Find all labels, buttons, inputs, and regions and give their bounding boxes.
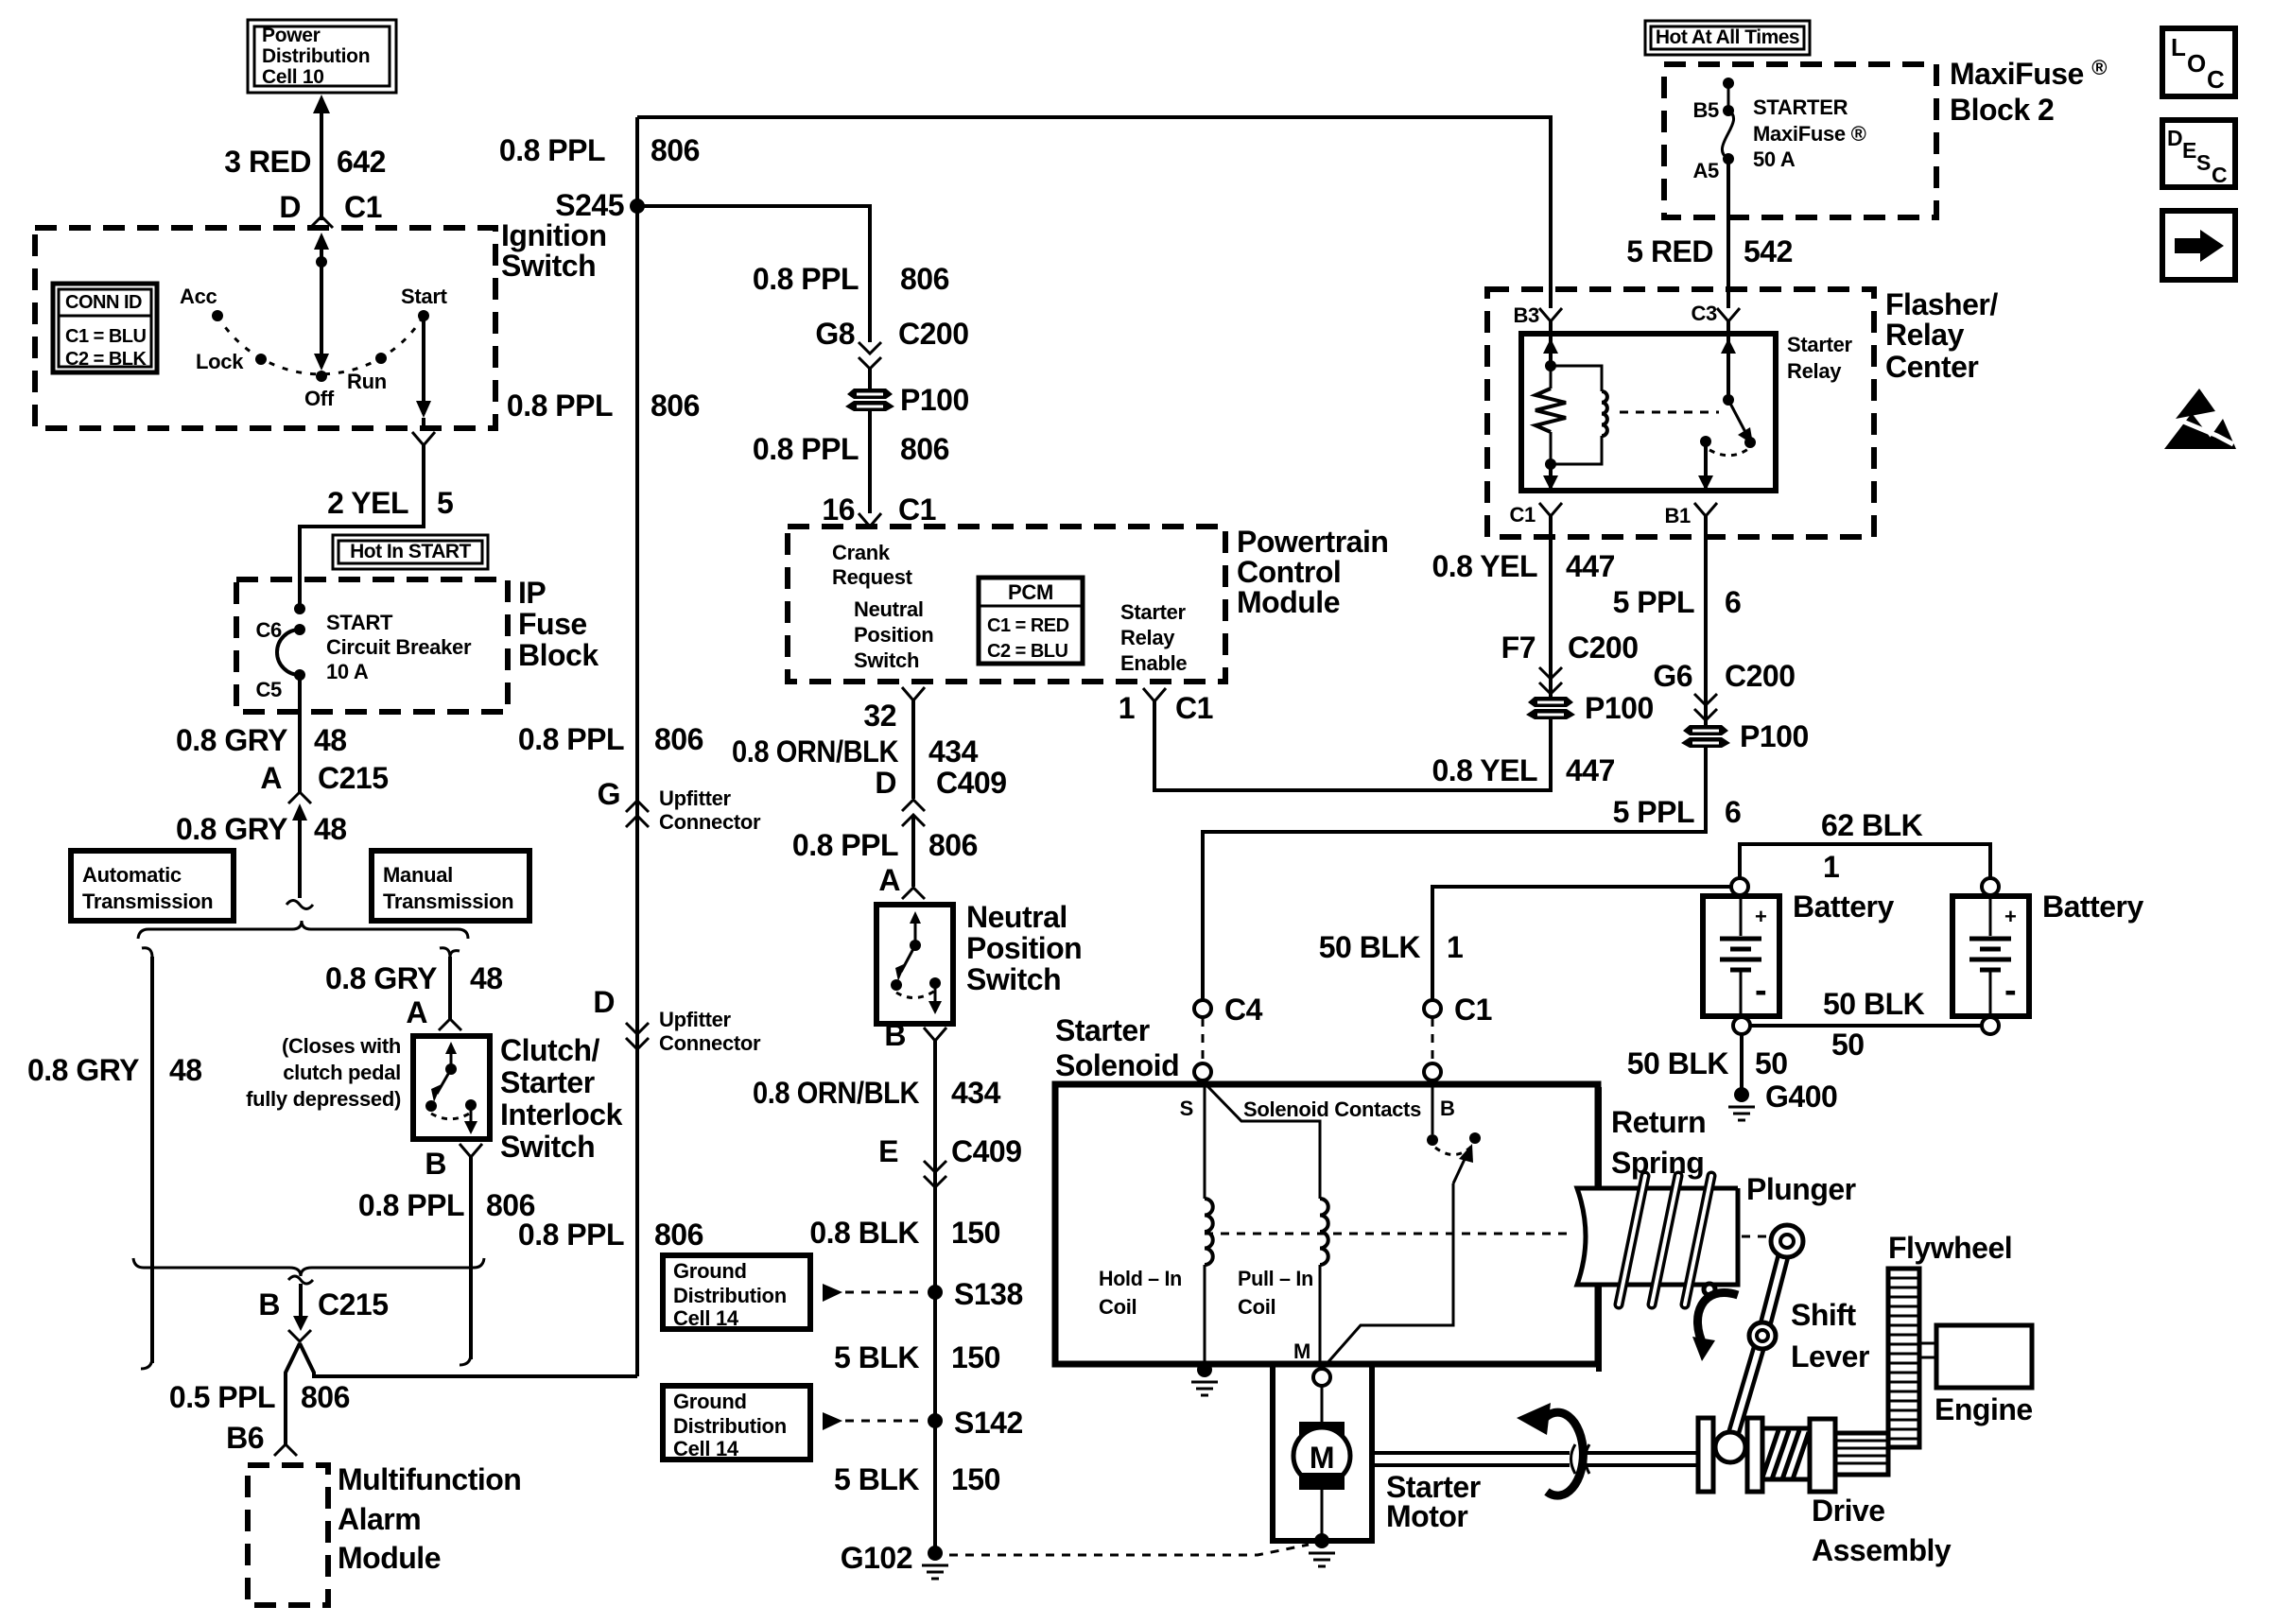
svg-text:Upfitter: Upfitter: [659, 1008, 732, 1031]
relay coil feed wire B3: [1543, 321, 1558, 371]
svg-text:MaxiFuse ®: MaxiFuse ®: [1950, 56, 2107, 91]
svg-text:S: S: [2196, 150, 2211, 175]
svg-text:L: L: [2171, 33, 2186, 61]
battery 2: [1952, 878, 2029, 1034]
svg-text:C2 = BLK: C2 = BLK: [65, 349, 147, 370]
distribution brace: [138, 921, 468, 939]
connector F7 C200: [1501, 631, 1639, 694]
label 0.8 PPL 806 at y428: [507, 389, 700, 423]
hook left branch bottom: [141, 1357, 152, 1369]
svg-text:62 BLK: 62 BLK: [1821, 808, 1923, 842]
label 0.8 YEL 447 lower: [1431, 753, 1614, 787]
svg-text:Lock: Lock: [196, 350, 244, 373]
svg-text:B: B: [425, 1147, 446, 1181]
svg-text:Block 2: Block 2: [1950, 93, 2054, 127]
svg-text:Off: Off: [304, 387, 335, 410]
svg-text:16: 16: [822, 492, 855, 527]
svg-text:Control: Control: [1237, 555, 1341, 589]
relay contact to B1: [1698, 436, 1748, 491]
svg-text:Battery: Battery: [1793, 890, 1894, 924]
svg-text:A: A: [406, 995, 427, 1029]
ignition switch common arm double arrow: [314, 233, 329, 371]
svg-text:50 A: 50 A: [1753, 147, 1796, 171]
label STARTER MaxiFuse 50 A: [1753, 95, 1866, 171]
label 0.8 PPL 806 branch: [753, 262, 949, 296]
svg-text:5 BLK: 5 BLK: [834, 1340, 919, 1374]
circuit breaker START 10A element: [277, 630, 300, 675]
shift lever mid pivot: [1749, 1322, 1776, 1349]
label Drive Assembly: [1812, 1494, 1952, 1567]
svg-text:Request: Request: [832, 565, 913, 589]
svg-text:50 BLK: 50 BLK: [1319, 930, 1421, 964]
wire NPS B down to G102: [933, 1041, 937, 1552]
label Clutch/Starter Interlock Switch: [500, 1033, 623, 1164]
label MaxiFuse Block 2: [1950, 56, 2107, 127]
svg-text:Coil: Coil: [1099, 1295, 1136, 1319]
ignition switch dashed box: [35, 228, 495, 428]
svg-text:6: 6: [1725, 795, 1741, 829]
label 0.8 PPL 806 clutch: [358, 1188, 535, 1222]
label 5 PPL 6: [1613, 585, 1742, 619]
svg-text:C5: C5: [255, 678, 282, 701]
pin 32 PCM: [863, 687, 925, 733]
svg-text:S245: S245: [555, 188, 624, 222]
svg-text:Motor: Motor: [1386, 1499, 1467, 1533]
svg-text:P100: P100: [900, 383, 969, 417]
drive plate 3: [1810, 1419, 1835, 1492]
terminal C4: [1194, 993, 1263, 1080]
svg-text:Switch: Switch: [854, 648, 919, 672]
svg-text:Drive: Drive: [1812, 1494, 1885, 1528]
pull-in coil: [1207, 1086, 1328, 1364]
node Off: [304, 371, 335, 410]
wire top bus S245 to B3: [637, 117, 1551, 308]
svg-text:Switch: Switch: [501, 249, 596, 283]
wire 3 RED 642 to Power Distribution: [313, 95, 330, 220]
connector pin below ignition box: [412, 432, 435, 445]
upfitter connector G: [598, 777, 761, 834]
label Multifunction Alarm Module: [338, 1462, 521, 1575]
gathering brace bottom: [133, 1258, 484, 1276]
hook left branch: [142, 948, 152, 958]
connector A C215: [260, 761, 388, 821]
label Starter Relay: [1787, 333, 1853, 383]
wire main PPL vertical: [635, 117, 639, 1376]
svg-text:Solenoid: Solenoid: [1055, 1048, 1179, 1082]
svg-text:-: -: [1755, 971, 1766, 1011]
upfitter connector D: [593, 985, 761, 1055]
svg-text:806: 806: [654, 722, 703, 756]
svg-text:C215: C215: [318, 761, 389, 795]
arrow B C215 down: [293, 1284, 308, 1331]
svg-text:Spring: Spring: [1611, 1146, 1704, 1180]
Automatic Transmission box: [71, 851, 234, 921]
svg-text:Acc: Acc: [180, 285, 217, 308]
label 50 BLK 50: [1627, 1046, 1788, 1080]
svg-text:Connector: Connector: [659, 810, 761, 834]
label START Circuit Breaker 10 A: [326, 611, 472, 683]
svg-text:Assembly: Assembly: [1812, 1533, 1952, 1567]
label 50 BLK 50 link: [1823, 987, 1925, 1062]
label Starter Solenoid: [1055, 1013, 1179, 1082]
pin D C1 connector: [279, 190, 382, 228]
svg-text:806: 806: [654, 1218, 703, 1252]
node S138: [928, 1277, 1023, 1311]
svg-text:C1: C1: [1175, 691, 1213, 725]
svg-text:C1: C1: [898, 492, 936, 527]
svg-text:+: +: [1755, 905, 1767, 928]
clutch switch internals: [425, 1042, 477, 1134]
svg-text:Distribution: Distribution: [673, 1414, 787, 1438]
relay switch C3 input: [1721, 321, 1736, 406]
wire clutch B down: [469, 1157, 473, 1359]
label 0.8 GRY 48 right branch: [325, 961, 503, 995]
svg-text:Start: Start: [401, 285, 448, 308]
wire to P100: [868, 369, 872, 389]
svg-text:Cell 14: Cell 14: [673, 1306, 739, 1330]
wire S245 branch to crank request: [637, 206, 870, 342]
wire 2 YEL 5 down-left to breaker: [300, 445, 424, 611]
starter motor housing: [1273, 1364, 1372, 1541]
wire contact arm to M: [1326, 1183, 1453, 1365]
svg-text:C1 = RED: C1 = RED: [987, 615, 1069, 636]
pin A clutch switch: [406, 995, 461, 1030]
svg-text:B6: B6: [226, 1421, 264, 1455]
svg-text:Ground: Ground: [673, 1390, 747, 1413]
svg-text:Neutral: Neutral: [966, 900, 1067, 934]
label B C215: [258, 1287, 388, 1322]
svg-text:50: 50: [1755, 1046, 1788, 1080]
svg-text:Ground: Ground: [673, 1259, 747, 1283]
rotation arrow shaft: [1517, 1403, 1583, 1495]
dashed link to S138: [845, 1291, 925, 1294]
pin B3: [1513, 303, 1562, 327]
junction dot in fuse block: [294, 603, 305, 614]
shift lever ball: [1715, 1432, 1745, 1462]
svg-text:48: 48: [169, 1053, 202, 1087]
relay actuate dashed link: [1620, 411, 1719, 414]
svg-text:0.8 PPL: 0.8 PPL: [792, 828, 898, 862]
svg-text:Hot In START: Hot In START: [350, 541, 471, 562]
svg-text:1: 1: [1823, 850, 1839, 884]
drive plate 2: [1747, 1418, 1762, 1492]
svg-text:Circuit Breaker: Circuit Breaker: [326, 635, 472, 659]
pin B1 relay: [1664, 503, 1717, 527]
svg-text:6: 6: [1725, 585, 1741, 619]
svg-text:C1 = BLU: C1 = BLU: [65, 326, 147, 347]
pin B6: [226, 1421, 297, 1456]
label 0.8 PPL 806 top: [499, 133, 700, 167]
label 0.8 PPL 806 below P100: [753, 432, 949, 466]
connector G6 C200: [1653, 659, 1795, 720]
label Shift Lever: [1791, 1298, 1869, 1373]
svg-text:5 RED: 5 RED: [1626, 234, 1713, 268]
svg-text:0.8 GRY: 0.8 GRY: [325, 961, 437, 995]
PCM dashed box: [788, 527, 1225, 682]
svg-text:B: B: [1440, 1097, 1455, 1120]
svg-text:Position: Position: [854, 623, 933, 647]
dashed link to S142: [845, 1420, 925, 1423]
flywheel ring gear: [1888, 1269, 1919, 1447]
svg-text:806: 806: [651, 389, 700, 423]
svg-text:Enable: Enable: [1120, 651, 1187, 675]
svg-text:Module: Module: [338, 1541, 441, 1575]
node Start: [401, 285, 448, 321]
svg-text:B5: B5: [1692, 98, 1719, 122]
svg-text:0.8 PPL: 0.8 PPL: [753, 432, 859, 466]
svg-text:0.8 GRY: 0.8 GRY: [176, 812, 287, 846]
grommet P100 ppl: [1681, 719, 1809, 753]
svg-text:Relay: Relay: [1885, 318, 1965, 352]
svg-text:48: 48: [314, 723, 347, 757]
svg-text:0.8 PPL: 0.8 PPL: [358, 1188, 464, 1222]
svg-text:150: 150: [951, 1462, 1000, 1496]
svg-text:+: +: [2004, 905, 2017, 928]
svg-text:A: A: [260, 761, 282, 795]
svg-text:Relay: Relay: [1120, 626, 1175, 649]
svg-text:G400: G400: [1765, 1080, 1837, 1114]
pin B clutch switch: [425, 1144, 482, 1181]
svg-text:C: C: [2212, 163, 2227, 187]
drive helix: [1762, 1428, 1810, 1479]
Power Distribution Cell 10 box: [248, 20, 396, 93]
starter solenoid box: [1055, 1084, 1598, 1364]
svg-text:C6: C6: [255, 618, 282, 642]
note (Closes with clutch pedal fully depressed): [246, 1034, 401, 1111]
svg-text:Multifunction: Multifunction: [338, 1462, 521, 1496]
node S142: [928, 1406, 1023, 1440]
label Starter Relay Enable: [1120, 600, 1187, 675]
svg-text:806: 806: [928, 828, 978, 862]
relay armature: [1728, 400, 1756, 448]
svg-text:C3: C3: [1691, 302, 1717, 325]
node S245: [555, 188, 645, 222]
svg-text:MaxiFuse ®: MaxiFuse ®: [1753, 122, 1866, 146]
wire ppl to C4: [1203, 748, 1706, 1000]
svg-text:Power: Power: [262, 25, 321, 46]
svg-text:Powertrain: Powertrain: [1237, 525, 1388, 559]
svg-text:C1: C1: [344, 190, 382, 224]
svg-text:Neutral: Neutral: [854, 597, 924, 621]
svg-text:P100: P100: [1585, 691, 1654, 725]
CONN ID table: [53, 284, 157, 372]
svg-text:Position: Position: [966, 931, 1082, 965]
hold-in coil: [1205, 1084, 1213, 1364]
svg-text:G: G: [598, 777, 620, 811]
svg-text:C: C: [2207, 65, 2225, 94]
pin 16 C1 PCM: [822, 492, 936, 527]
Ground Distribution Cell 14 box 2: [663, 1386, 810, 1460]
relay coil to C1: [1543, 464, 1558, 491]
svg-text:150: 150: [951, 1216, 1000, 1250]
svg-text:D: D: [875, 766, 896, 800]
svg-text:Battery: Battery: [2042, 890, 2143, 924]
svg-text:642: 642: [337, 145, 386, 179]
engine box: [1936, 1325, 2032, 1388]
wire 5 RED 542: [1726, 159, 1730, 308]
svg-text:0.8 PPL: 0.8 PPL: [507, 389, 613, 423]
svg-text:Starter: Starter: [500, 1065, 595, 1099]
svg-text:Return: Return: [1611, 1105, 1706, 1139]
shift lever top pivot: [1771, 1225, 1803, 1257]
pin A NPS: [878, 863, 925, 899]
relay resistor: [1536, 366, 1566, 464]
svg-text:Shift: Shift: [1791, 1298, 1856, 1332]
svg-text:Starter: Starter: [1787, 333, 1853, 356]
svg-text:C2 = BLU: C2 = BLU: [987, 641, 1068, 662]
svg-text:Lever: Lever: [1791, 1339, 1869, 1373]
dashed axis right of plunger: [1742, 1235, 1770, 1238]
svg-text:(Closes with: (Closes with: [282, 1034, 401, 1058]
motor M symbol: [1293, 1422, 1350, 1535]
svg-text:0.8 BLK: 0.8 BLK: [809, 1216, 919, 1250]
svg-text:0.8 YEL: 0.8 YEL: [1431, 753, 1537, 787]
connector D C409: [875, 766, 1006, 826]
svg-text:O: O: [2187, 49, 2206, 78]
pin 1 C1 PCM: [1119, 688, 1213, 725]
svg-text:0.8 GRY: 0.8 GRY: [176, 723, 287, 757]
svg-text:A: A: [878, 863, 900, 897]
label 0.8 ORN/BLK 434: [732, 734, 979, 769]
svg-text:C215: C215: [318, 1287, 389, 1322]
svg-text:Upfitter: Upfitter: [659, 786, 732, 810]
svg-text:clutch pedal: clutch pedal: [283, 1061, 401, 1084]
svg-text:Relay: Relay: [1787, 359, 1842, 383]
svg-text:Transmission: Transmission: [383, 890, 513, 913]
wire breaker to C215: [298, 675, 302, 792]
svg-text:Manual: Manual: [383, 863, 453, 887]
svg-text:50 BLK: 50 BLK: [1627, 1046, 1729, 1080]
wire C215 to transmission brace: [298, 809, 302, 898]
svg-text:S142: S142: [954, 1406, 1023, 1440]
arrow legend box: [2162, 211, 2235, 280]
label 0.8 PPL 806 at y781: [518, 722, 703, 756]
battery 1: [1703, 878, 1779, 1034]
svg-text:806: 806: [900, 262, 949, 296]
terminal M: [1313, 1369, 1330, 1386]
svg-text:Fuse: Fuse: [518, 607, 587, 641]
hook clutch wire bottom: [460, 1354, 471, 1365]
node Acc: [180, 285, 223, 321]
svg-text:Cell 10: Cell 10: [262, 66, 324, 88]
svg-text:806: 806: [651, 133, 700, 167]
LOC legend box: [2162, 28, 2235, 96]
svg-text:Ignition: Ignition: [501, 218, 607, 252]
connector E C409: [878, 1134, 1021, 1187]
svg-text:447: 447: [1566, 753, 1615, 787]
label Pull-In Coil: [1238, 1267, 1313, 1319]
label Neutral Position Switch: [966, 900, 1082, 996]
label 0.8 BLK 150: [809, 1216, 1000, 1250]
ground starter motor: [1309, 1533, 1335, 1566]
svg-text:0.8 PPL: 0.8 PPL: [499, 133, 605, 167]
svg-text:Starter: Starter: [1055, 1013, 1150, 1047]
ground hold-in coil: [1191, 1362, 1218, 1395]
svg-text:Solenoid Contacts: Solenoid Contacts: [1243, 1097, 1421, 1121]
svg-text:0.8 GRY: 0.8 GRY: [27, 1053, 139, 1087]
svg-text:D: D: [2167, 126, 2182, 150]
svg-text:C200: C200: [1568, 631, 1639, 665]
svg-text:B1: B1: [1664, 504, 1691, 527]
arrow to S138: [823, 1284, 842, 1302]
wire yel to PCM pin1: [1154, 701, 1551, 790]
svg-text:B: B: [884, 1018, 906, 1052]
Hot At All Times box: [1645, 21, 1810, 55]
svg-text:Switch: Switch: [500, 1130, 595, 1164]
pin C3: [1691, 302, 1740, 325]
arrow to S142: [823, 1412, 842, 1430]
node Run: [347, 353, 387, 393]
ignition positions dashed arc: [217, 316, 424, 374]
svg-text:5 PPL: 5 PPL: [1613, 585, 1694, 619]
svg-text:-: -: [2004, 971, 2016, 1011]
svg-text:Module: Module: [1237, 585, 1340, 619]
terminal C1 solenoid: [1424, 993, 1492, 1080]
svg-text:Cell 14: Cell 14: [673, 1437, 739, 1460]
svg-text:48: 48: [314, 812, 347, 846]
svg-text:0.8 PPL: 0.8 PPL: [518, 1218, 624, 1252]
PCM ID table: [979, 578, 1083, 664]
wire battery to G400: [1740, 1034, 1744, 1089]
svg-text:434: 434: [928, 734, 979, 769]
svg-text:434: 434: [951, 1076, 1001, 1110]
MaxiFuse Block 2 dashed box: [1664, 64, 1936, 217]
svg-text:806: 806: [301, 1380, 350, 1414]
svg-text:START: START: [326, 611, 393, 634]
svg-text:G8: G8: [815, 317, 855, 351]
label 0.8 YEL 447: [1431, 549, 1614, 583]
relay coil: [1545, 366, 1607, 470]
label 0.8 GRY 48: [176, 812, 347, 846]
svg-text:2 YEL: 2 YEL: [327, 486, 408, 520]
svg-text:0.8 PPL: 0.8 PPL: [518, 722, 624, 756]
wire Start contact down: [416, 316, 431, 428]
svg-text:5 BLK: 5 BLK: [834, 1462, 919, 1496]
label 0.8 PPL 806 NPS: [792, 828, 978, 862]
svg-text:F7: F7: [1501, 631, 1536, 665]
svg-text:Transmission: Transmission: [82, 890, 213, 913]
svg-text:0.8 PPL: 0.8 PPL: [753, 262, 859, 296]
wire P100 to PCM: [868, 411, 872, 513]
pin C5: [255, 669, 305, 701]
fuse STARTER MaxiFuse 50A: [1722, 78, 1734, 164]
dashed wire G102 to starter motor ground: [949, 1545, 1309, 1555]
ground G400: [1728, 1080, 1837, 1120]
svg-text:Switch: Switch: [966, 962, 1061, 996]
svg-text:S138: S138: [954, 1277, 1023, 1311]
label Hold-In Coil: [1099, 1267, 1182, 1319]
svg-text:Alarm: Alarm: [338, 1502, 421, 1536]
svg-text:Clutch/: Clutch/: [500, 1033, 600, 1067]
svg-text:Flasher/: Flasher/: [1885, 287, 1998, 321]
svg-text:PCM: PCM: [1008, 580, 1053, 604]
return spring coils: [1619, 1176, 1715, 1304]
Hot In START box: [333, 535, 488, 569]
neutral position switch box: [876, 905, 953, 1024]
svg-text:B3: B3: [1513, 303, 1539, 327]
svg-text:Starter: Starter: [1120, 600, 1187, 624]
svg-text:806: 806: [900, 432, 949, 466]
Flasher Relay Center dashed box: [1487, 289, 1874, 537]
svg-text:E: E: [2182, 138, 2196, 163]
starter relay box: [1521, 334, 1776, 491]
svg-text:1: 1: [1119, 691, 1135, 725]
solenoid case right edge: [1596, 1087, 1602, 1372]
Ground Distribution Cell 14 box 1: [663, 1255, 810, 1330]
label 50 BLK 1: [1319, 930, 1464, 964]
svg-text:Engine: Engine: [1935, 1392, 2033, 1426]
label IP Fuse Block: [518, 576, 599, 672]
